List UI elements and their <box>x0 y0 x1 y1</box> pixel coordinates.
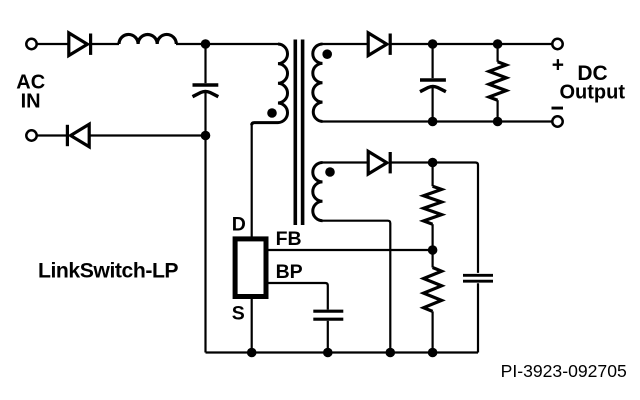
wire primary bottom lead down to D pin <box>251 124 253 237</box>
inductor L1 <box>119 34 176 44</box>
wire D3 to DC+ terminal through nodes <box>390 43 553 45</box>
diode D2 <box>67 124 89 147</box>
wire bottom ground rail <box>206 351 479 353</box>
wire BP line from U1, corner down to C4 <box>269 283 328 310</box>
wire secondary1 top lead to D3 <box>323 43 369 45</box>
capacitor C2 output <box>420 44 446 122</box>
resistor R3 feedback lower <box>424 250 442 353</box>
svg-text:BP: BP <box>276 261 303 283</box>
wire left bus down from lower AC node to ground rail <box>204 136 206 353</box>
diode D1 <box>69 33 91 56</box>
svg-text:PI-3923-092705: PI-3923-092705 <box>501 361 627 381</box>
wire D2 to node <box>90 134 206 136</box>
node FB divider <box>428 245 438 255</box>
svg-text:IN: IN <box>21 90 41 112</box>
node AC top junction <box>201 39 211 49</box>
svg-text:FB: FB <box>276 228 302 250</box>
svg-text:LinkSwitch-LP: LinkSwitch-LP <box>38 260 178 283</box>
transformer T1 secondary winding 1 <box>313 44 323 122</box>
wire L1 to transformer primary top, through node <box>176 43 278 45</box>
resistor R1 output load <box>489 44 506 122</box>
svg-text:S: S <box>232 302 245 324</box>
node ground divider <box>428 348 438 358</box>
capacitor C5 feedback <box>463 275 493 281</box>
transformer core line left <box>293 40 297 226</box>
node ground secondary2 <box>386 348 396 358</box>
transformer T1 primary winding <box>252 44 288 125</box>
resistor R2 feedback upper <box>424 163 442 251</box>
wire S pin to ground rail <box>251 299 253 353</box>
wire right column below C5 to ground rail <box>477 283 479 352</box>
capacitor C1 <box>193 44 219 136</box>
wire secondary2 top lead to D4 <box>323 161 369 163</box>
node output bottom R1 <box>493 117 503 127</box>
terminal AC bottom <box>26 130 36 140</box>
wire FB line from U1 to divider node <box>269 249 433 251</box>
svg-text:D: D <box>232 213 246 235</box>
terminal DC plus <box>552 39 562 49</box>
svg-text:Output: Output <box>560 82 626 104</box>
wire secondary1 bottom rail to DC- terminal <box>323 120 554 122</box>
node ground C4 <box>323 348 333 358</box>
polarity dot primary <box>267 108 277 118</box>
node ground S <box>247 348 257 358</box>
terminal DC minus <box>552 116 562 126</box>
diode D3 <box>368 33 390 56</box>
wire D1 to L1 <box>91 43 120 45</box>
diode D4 <box>368 151 390 174</box>
label minus <box>552 107 564 110</box>
node feedback rectifier <box>428 158 438 168</box>
svg-text:+: + <box>552 54 564 77</box>
node output bottom C2 <box>428 117 438 127</box>
wire D4 to feedback node and corner down right column <box>390 163 478 273</box>
node AC bottom junction <box>201 131 211 141</box>
capacitor C4 bypass <box>313 311 343 352</box>
node output top R1 <box>493 39 503 49</box>
polarity dot secondary 2 <box>325 167 335 177</box>
terminal AC top <box>26 39 36 49</box>
polarity dot secondary 1 <box>322 49 332 59</box>
wire secondary2 bottom lead, corner down to ground rail <box>323 221 391 353</box>
transformer T1 secondary winding 2 <box>313 163 323 221</box>
transformer core line right <box>301 40 305 226</box>
wire AC top: terminal to D1 <box>36 43 68 45</box>
node output top C2 <box>428 39 438 49</box>
IC U1 LinkSwitch-LP <box>235 239 266 297</box>
wire AC bottom: terminal to D2 <box>36 134 67 136</box>
